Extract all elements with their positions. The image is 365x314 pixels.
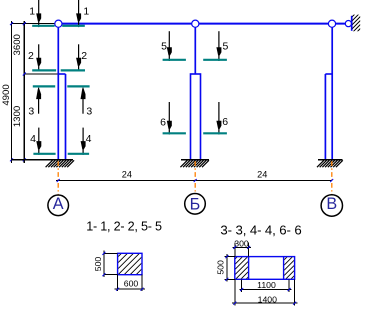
svg-text:5: 5	[223, 41, 229, 53]
fixed support V hatching	[317, 160, 324, 167]
axis circle B	[185, 194, 206, 215]
section 2 tick 1100 right	[288, 288, 291, 291]
load arrow 2 left	[38, 44, 40, 71]
section 2 left ext bottom	[225, 278, 235, 280]
section 2 tick 1100 left	[240, 288, 243, 291]
corbel platform 4 left	[33, 153, 55, 155]
axis line B (dash-dot)	[194, 161, 196, 194]
svg-text:1400: 1400	[258, 294, 277, 304]
section 1 left ext top	[104, 252, 118, 254]
corbel platform 4 right	[68, 153, 89, 155]
section 2 ext 1400 left	[234, 279, 236, 305]
span dim tick at V	[330, 179, 333, 182]
svg-text:1: 1	[83, 6, 89, 18]
hinge at column A top	[55, 20, 62, 27]
load arrow 1 left	[38, 0, 40, 27]
section 2 tick 300 left	[233, 246, 236, 249]
svg-text:3600: 3600	[12, 34, 23, 55]
column V step at crane level	[325, 73, 332, 75]
svg-text:В: В	[326, 195, 337, 213]
beam (girder) top chord	[55, 23, 345, 25]
fixed support A hatching	[46, 160, 53, 167]
load arrow 3 left (upward)	[38, 88, 40, 114]
section 2 ext 1400 right	[294, 279, 296, 305]
dim tick mid inner	[23, 73, 26, 76]
section 2 tick 500 bottom	[225, 278, 228, 281]
load arrow 1 right	[78, 0, 80, 27]
dim tick bottom inner	[23, 158, 26, 161]
dimension line vertical outer (4900)	[11, 21, 13, 163]
span dim tick at B	[194, 179, 197, 182]
top extension line at beam level	[12, 23, 56, 25]
section 2 dim line 300	[232, 246, 251, 248]
svg-text:24: 24	[257, 170, 267, 180]
ground line at support V	[318, 159, 343, 161]
svg-text:300: 300	[234, 238, 249, 248]
section 1 tick 600 left	[116, 288, 119, 291]
section 1 hatched square	[118, 253, 142, 274]
svg-text:3: 3	[86, 106, 92, 118]
section 1 tick 500 top	[102, 252, 105, 255]
corbel platform 1 right	[62, 25, 85, 27]
axis line A (dash-dot)	[57, 161, 59, 194]
corbel platform 3 left	[33, 85, 55, 87]
section 2 dim line 1400	[232, 302, 298, 304]
section 1 dim line 500	[103, 251, 105, 278]
corbel platform 2 left	[32, 69, 56, 71]
svg-text:6: 6	[222, 116, 228, 128]
load arrow 3 right (upward)	[82, 88, 84, 114]
ground line at support B	[181, 159, 209, 161]
load arrow 5 right	[218, 31, 220, 61]
section 2 tick 300 right	[247, 246, 250, 249]
svg-text:500: 500	[215, 260, 225, 275]
svg-text:5: 5	[161, 41, 167, 53]
svg-text:600: 600	[124, 279, 139, 289]
column A upper narrow part / left face	[57, 27, 59, 160]
section 2 ext 1100 left	[241, 279, 243, 292]
svg-text:1: 1	[29, 6, 35, 18]
corbel platform 6 right	[203, 132, 227, 134]
axis line V (dash-dot)	[331, 161, 333, 194]
section 2 top ext left	[234, 243, 236, 257]
load arrow 4 left	[38, 128, 40, 155]
dim tick top inner	[23, 22, 26, 25]
svg-text:2: 2	[28, 50, 34, 62]
dim tick top outer	[10, 22, 13, 25]
svg-text:6: 6	[160, 117, 166, 129]
section 1 tick 500 bottom	[102, 273, 105, 276]
section 1 dim line 600	[115, 288, 146, 290]
wall support hatching	[351, 8, 361, 38]
dim tick bottom outer	[10, 158, 13, 161]
section 1 left ext bottom	[104, 274, 118, 276]
svg-text:Б: Б	[190, 195, 201, 213]
svg-text:1300: 1300	[12, 106, 23, 127]
corbel platform 5 right	[203, 59, 227, 61]
dimension line vertical inner (3600/1300)	[23, 21, 25, 163]
svg-text:4: 4	[86, 133, 92, 145]
column V lower wide part left face	[324, 74, 326, 160]
section 2 double-branch rectangle	[235, 257, 295, 280]
svg-text:24: 24	[122, 170, 132, 180]
section 1 tick 600 right	[141, 288, 144, 291]
span dimension line	[56, 180, 332, 182]
section 2 tick 1400 right	[293, 302, 296, 305]
column B lower wide part	[191, 74, 201, 160]
svg-text:А: А	[53, 195, 64, 213]
load arrow 6 right	[218, 102, 220, 135]
column B upper narrow part	[194, 27, 196, 75]
svg-text:3- 3, 4- 4, 6- 6: 3- 3, 4- 4, 6- 6	[220, 222, 301, 237]
section 1 bottom ext right	[141, 275, 143, 292]
corbel platform 5 left	[163, 59, 186, 61]
svg-text:500: 500	[93, 257, 103, 272]
fixed support B hatching	[180, 160, 187, 167]
section 2 dim line 1100	[239, 289, 291, 291]
section 2 dim line 500	[226, 254, 228, 281]
corbel platform 1 left	[32, 25, 54, 27]
wall support face line	[351, 16, 353, 31]
section 2 tick 500 top	[225, 255, 228, 258]
wall support hinge circle	[345, 21, 351, 27]
load arrow 2 right	[78, 44, 80, 71]
corbel platform 6 left	[163, 132, 186, 134]
section 2 tick 1400 left	[233, 302, 236, 305]
svg-text:1- 1, 2- 2, 5- 5: 1- 1, 2- 2, 5- 5	[86, 220, 162, 234]
mid extension line at column step level	[24, 73, 58, 75]
corbel platform 2 right	[61, 69, 85, 71]
svg-text:3: 3	[28, 106, 34, 118]
section 2 left ext top	[225, 256, 235, 258]
column V upper narrow part / right face	[331, 27, 333, 160]
axis circle V	[321, 195, 342, 216]
section 2 ext 1100 right	[288, 279, 290, 292]
hinge at column V top	[328, 20, 335, 27]
load arrow 5 left	[168, 31, 170, 61]
svg-text:4900: 4900	[1, 84, 12, 105]
axis circle A	[48, 195, 69, 216]
hinge at column B top	[192, 20, 199, 27]
load arrow 6 left	[168, 102, 170, 135]
ground line at support A	[12, 159, 74, 161]
column A lower wide part right face	[65, 74, 67, 160]
load arrow 4 right	[82, 128, 84, 155]
svg-text:4: 4	[30, 133, 36, 145]
section 1 bottom ext left	[117, 275, 119, 292]
svg-text:1100: 1100	[257, 280, 276, 290]
column A step at crane level	[58, 73, 65, 75]
span dim tick at A	[57, 179, 60, 182]
corbel platform 3 right	[67, 85, 89, 87]
svg-text:2: 2	[81, 50, 87, 62]
section 2 top ext right	[248, 243, 250, 257]
